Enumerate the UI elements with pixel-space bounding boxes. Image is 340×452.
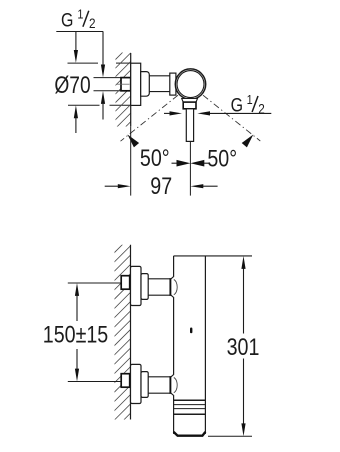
nut left arrow tail (164, 112, 171, 114)
knob outer circle (175, 69, 205, 99)
wall hatching top (114, 44, 131, 138)
nut left arrow (points right) (170, 111, 183, 115)
bowtie arrow right (190, 160, 204, 167)
301 dim line (243, 267, 245, 425)
union 1 tube (148, 279, 170, 295)
extension line nut bottom (94, 90, 122, 92)
150 dim line (76, 294, 78, 371)
union 2 body chamfers (171, 375, 174, 378)
lever handle (186, 109, 193, 142)
150 down arrow (75, 369, 79, 382)
knob inner circle (177, 71, 204, 98)
lever centerline (189, 141, 191, 195)
supply nut behind wall (bold) (121, 78, 131, 91)
outlet bottom (bold with chamfer) (174, 432, 206, 436)
svg-text:301: 301 (227, 333, 260, 360)
union 2 nut (bold) (121, 374, 130, 388)
union 1 tube end bar (169, 278, 171, 296)
extension line nut top (94, 77, 122, 79)
union 2 flange (141, 372, 148, 398)
G1/2 right leader line (209, 112, 272, 114)
97 dim arrow left (118, 184, 131, 188)
97 extension line left (wall axis) (130, 126, 132, 195)
svg-text:1: 1 (77, 7, 83, 22)
swing line left (dash-dot) (121, 95, 179, 141)
swing line right (dash-dot) (203, 95, 260, 141)
svg-text:150±15: 150±15 (43, 321, 109, 348)
union 2 escutcheon (131, 364, 142, 403)
union 2 ball arc (174, 378, 177, 393)
escutcheon side view (131, 63, 141, 105)
arc arrow left 50 (128, 135, 140, 148)
bowtie left tail (172, 162, 178, 164)
extension line escutcheon bottom (68, 104, 131, 106)
150 up arrow (75, 283, 79, 296)
extension line escutcheon top (68, 62, 131, 64)
svg-text:97: 97 (150, 172, 172, 199)
wall line bottom (130, 245, 132, 420)
301 bottom extension line (208, 435, 252, 437)
97 dim arrow right (190, 184, 203, 188)
cartridge housing (141, 72, 150, 97)
svg-text:50°: 50° (140, 144, 170, 171)
Ø70 lower tail (75, 118, 77, 134)
svg-text:50°: 50° (207, 145, 237, 172)
301 up arrow (241, 256, 245, 269)
body mark (190, 328, 192, 334)
pipe centerline dash (117, 83, 130, 85)
union 2 tube (148, 377, 170, 393)
arc arrow right 50 (242, 135, 254, 148)
svg-text:2: 2 (258, 100, 265, 116)
flange (170, 73, 176, 95)
wall line top (130, 53, 132, 126)
301 down arrow (241, 423, 245, 436)
union 2 tube end bar (169, 376, 171, 394)
bowtie arrow left (177, 160, 191, 167)
97 right tail (203, 185, 218, 187)
G1/2 right arrow (points left at nut) (197, 111, 210, 115)
svg-text:2: 2 (89, 15, 96, 31)
svg-text:1: 1 (247, 92, 253, 107)
neck trapezoid (182, 99, 198, 103)
150 extension line top (68, 282, 121, 284)
union 1 body chamfers (171, 277, 174, 280)
97 left tail (105, 185, 119, 187)
Ø70 upper arrow line (75, 32, 77, 52)
shaft tube (149, 76, 170, 92)
body outline (174, 256, 206, 434)
union 1 nut (bold) (121, 276, 130, 290)
label G1/2 top (56, 7, 103, 32)
union 1 flange (141, 274, 148, 300)
bowtie right tail (204, 162, 209, 164)
body top edge + 301 top extension (174, 255, 252, 257)
Ø70 down arrow (74, 50, 78, 63)
svg-text:G: G (61, 9, 73, 31)
svg-text:Ø70: Ø70 (54, 71, 90, 99)
union 1 ball arc (174, 280, 177, 295)
G1/2 down arrow (101, 65, 105, 78)
hose nut (183, 102, 196, 109)
G1/2 leader down line (102, 32, 104, 67)
svg-text:G: G (231, 94, 243, 116)
Ø70 up arrow (74, 105, 78, 118)
aerator joint lines (174, 400, 206, 414)
label G1/2 right (231, 92, 265, 116)
150 extension line bottom (68, 381, 121, 383)
union 1 escutcheon (131, 266, 142, 305)
G1/2 lower tail (102, 103, 104, 120)
wall hatching bottom (112, 236, 131, 432)
G1/2 up arrow (101, 91, 105, 104)
